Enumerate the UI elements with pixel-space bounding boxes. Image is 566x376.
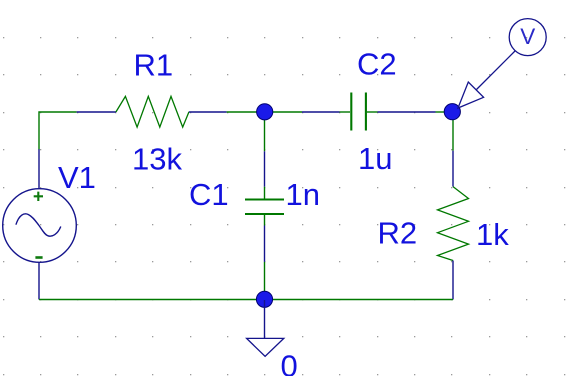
resistor R2 [438, 151, 469, 300]
wire R1 to node A [227, 111, 265, 113]
junction node A [257, 104, 273, 120]
capacitor C1 [245, 151, 284, 262]
junction node B [444, 104, 460, 120]
svg-text:1u: 1u [358, 141, 392, 176]
svg-text:1n: 1n [286, 177, 320, 212]
svg-text:C1: C1 [189, 177, 229, 212]
svg-text:R1: R1 [134, 48, 174, 83]
svg-text:0: 0 [281, 348, 298, 376]
junction node C [256, 291, 272, 307]
capacitor C2 [302, 93, 436, 131]
wire C1 bottom to node C [264, 262, 266, 300]
bottom wire [39, 299, 453, 301]
svg-text:13k: 13k [132, 142, 182, 177]
svg-text:1k: 1k [476, 217, 509, 252]
svg-text:R2: R2 [378, 216, 418, 251]
wire node A to C2 [265, 111, 303, 113]
svg-text:V: V [520, 24, 535, 49]
svg-text:V1: V1 [58, 160, 96, 195]
voltage probe V [458, 19, 546, 108]
resistor R1 [77, 96, 227, 127]
wire top-left horizontal (node V1 top to R1) [39, 112, 77, 150]
wire node A down to C1 [264, 112, 266, 151]
ground [247, 300, 284, 356]
wire C2 to node B [436, 111, 452, 113]
voltage source V1 [3, 149, 77, 299]
svg-text:C2: C2 [357, 47, 397, 82]
wire node B down to R2 [452, 112, 454, 151]
